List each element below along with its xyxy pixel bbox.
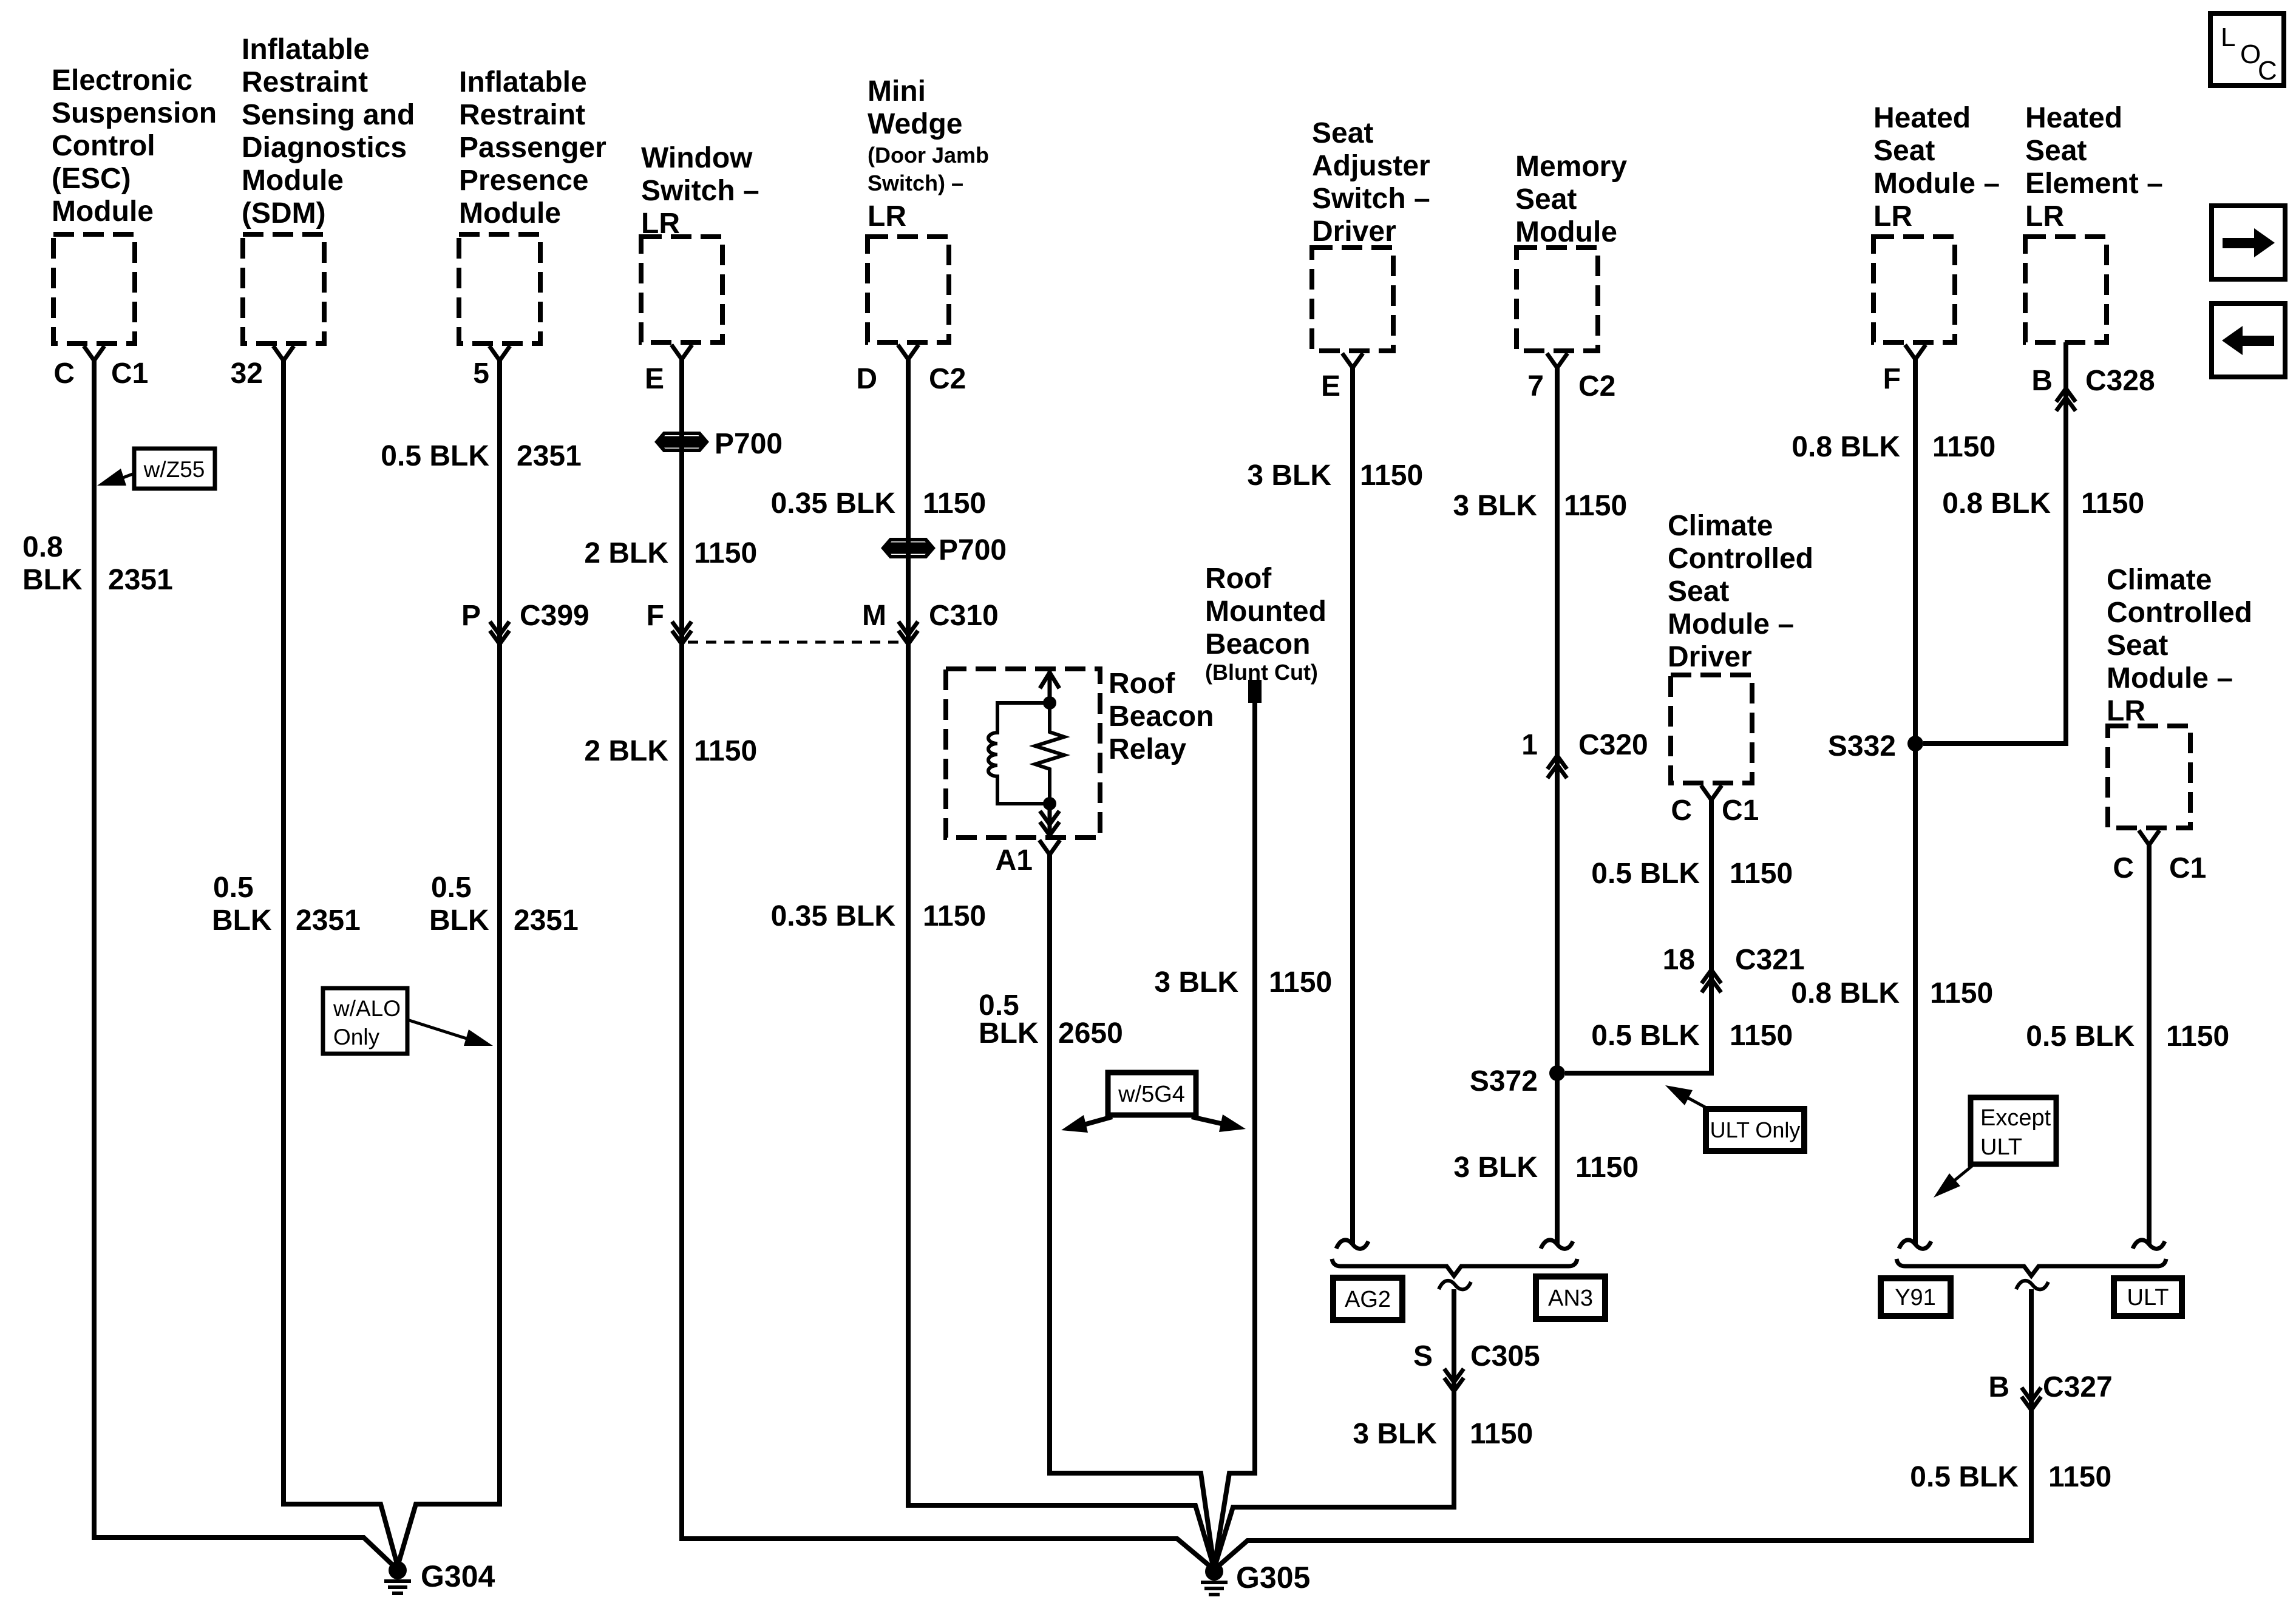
connector fork under relay pin A1 [1039, 840, 1060, 855]
in-line connector P700 symbol (mini wedge) [883, 540, 933, 557]
svg-text:1150: 1150 [2048, 1461, 2111, 1493]
svg-text:S372: S372 [1470, 1065, 1538, 1097]
callout double arrow w/5G4 [1079, 1117, 1226, 1126]
svg-text:F: F [1883, 363, 1901, 395]
module SDM dashed box [243, 234, 324, 344]
svg-text:1150: 1150 [1564, 490, 1627, 522]
svg-text:E: E [645, 363, 664, 395]
svg-text:Inflatable: Inflatable [459, 66, 587, 98]
svg-text:Only: Only [333, 1025, 380, 1049]
callout box w/Z55 [134, 449, 215, 489]
svg-text:C2: C2 [1578, 370, 1615, 402]
svg-text:0.5 BLK: 0.5 BLK [381, 440, 489, 472]
svg-text:0.8 BLK: 0.8 BLK [1942, 487, 2051, 520]
callout arrow w/Z55 [117, 473, 134, 480]
svg-text:Mini: Mini [868, 75, 926, 107]
svg-text:7: 7 [1527, 370, 1544, 402]
svg-text:32: 32 [231, 358, 263, 390]
module Mini Wedge dashed box [868, 237, 949, 342]
svg-text:1150: 1150 [923, 900, 986, 932]
svg-text:Control: Control [52, 130, 155, 162]
svg-text:M: M [862, 600, 886, 632]
net tag box AN3 [1536, 1276, 1605, 1319]
svg-text:C: C [1671, 795, 1692, 827]
svg-text:1150: 1150 [1269, 966, 1332, 998]
callout box w/ALO Only [323, 988, 407, 1054]
wire seat adjuster to splice bracket [1350, 368, 1355, 1244]
svg-text:Roof: Roof [1109, 668, 1175, 700]
svg-text:C327: C327 [2043, 1371, 2113, 1403]
svg-text:Module –: Module – [2107, 662, 2233, 694]
net tag box Y91 [1881, 1278, 1951, 1316]
svg-text:Suspension: Suspension [52, 97, 217, 129]
svg-text:Y91: Y91 [1895, 1285, 1936, 1310]
ground G305 [1205, 1562, 1223, 1581]
svg-text:w/Z55: w/Z55 [143, 457, 205, 482]
svg-text:0.5 BLK: 0.5 BLK [1591, 858, 1700, 890]
LOC reference box [2210, 13, 2284, 86]
svg-text:Module –: Module – [1668, 608, 1794, 640]
svg-text:Module: Module [1515, 216, 1617, 248]
svg-text:AN3: AN3 [1548, 1286, 1593, 1311]
in-line connector P700 symbol [657, 433, 707, 450]
brace pigtail squiggle [1439, 1281, 1471, 1289]
svg-text:0.5 BLK: 0.5 BLK [2026, 1020, 2135, 1053]
svg-text:2650: 2650 [1058, 1017, 1123, 1049]
svg-text:3 BLK: 3 BLK [1453, 1151, 1538, 1184]
svg-text:BLK: BLK [429, 904, 489, 937]
relay resistor (contact) branch [1035, 703, 1064, 804]
svg-text:Adjuster: Adjuster [1312, 150, 1430, 182]
connector fork under Heated Seat Module [1905, 345, 1926, 359]
svg-text:Heated: Heated [2025, 102, 2122, 134]
net tag box AG2 [1333, 1278, 1402, 1320]
svg-text:1150: 1150 [1730, 1020, 1793, 1052]
relay pin arrow up [1040, 671, 1059, 703]
svg-text:LR: LR [2025, 200, 2064, 232]
svg-text:Module –: Module – [1873, 168, 2000, 200]
wire hook end (heated module) [1899, 1240, 1931, 1249]
svg-text:0.5: 0.5 [431, 872, 472, 904]
connector fork under Window Switch [671, 345, 692, 359]
svg-text:F: F [647, 600, 664, 632]
svg-text:Restraint: Restraint [459, 99, 585, 131]
junction chevron on window switch wire [672, 622, 691, 644]
wire memory seat to splice bracket [1555, 368, 1560, 1244]
wire climate LR to bracket [2147, 845, 2152, 1244]
svg-text:Diagnostics: Diagnostics [242, 132, 407, 164]
wire from bracket to C327 and G305 [1214, 1289, 2031, 1570]
svg-text:3 BLK: 3 BLK [1154, 966, 1238, 998]
svg-text:C321: C321 [1735, 944, 1805, 976]
svg-text:Window: Window [641, 142, 753, 174]
svg-text:(ESC): (ESC) [52, 163, 131, 195]
svg-text:0.5 BLK: 0.5 BLK [1910, 1461, 2019, 1493]
dashed jumper wire between F and M [688, 641, 908, 644]
callout arrow Except ULT [1951, 1164, 1974, 1184]
wire Window Switch upper segment [682, 359, 1214, 1570]
connector fork under SDM [273, 346, 294, 361]
connector fork under Seat Adjuster [1342, 353, 1363, 368]
svg-text:P: P [461, 600, 481, 632]
splice bracket brace (AG2/AN3) [1332, 1259, 1577, 1276]
relay coil branch [988, 703, 1050, 804]
svg-text:1150: 1150 [1932, 431, 1995, 463]
svg-text:Seat: Seat [1312, 117, 1373, 149]
svg-text:Sensing and: Sensing and [242, 99, 415, 131]
svg-text:G304: G304 [421, 1559, 495, 1593]
svg-text:0.8 BLK: 0.8 BLK [1791, 977, 1900, 1009]
wire relay A1 ground: down, right, into G305 [1050, 855, 1214, 1567]
svg-text:3 BLK: 3 BLK [1453, 490, 1537, 522]
svg-text:Element –: Element – [2025, 168, 2163, 200]
wire ESC ground: down, right, into G304 [94, 361, 398, 1570]
svg-text:1150: 1150 [1730, 858, 1793, 890]
svg-text:0.8: 0.8 [22, 531, 63, 563]
module Climate Controlled Seat Driver dashed box [1671, 675, 1752, 783]
svg-text:Restraint: Restraint [242, 66, 368, 98]
svg-text:Switch –: Switch – [1312, 183, 1430, 215]
module Memory Seat dashed box [1517, 248, 1598, 351]
svg-text:1150: 1150 [2166, 1020, 2229, 1053]
svg-text:P700: P700 [939, 534, 1007, 566]
relay pin double-arrow down [1040, 804, 1059, 836]
svg-text:Switch –: Switch – [641, 175, 759, 207]
svg-text:LR: LR [2107, 695, 2145, 727]
svg-text:1: 1 [1521, 729, 1538, 761]
blunt cut stub bar [1248, 680, 1262, 703]
callout arrow ULT Only [1687, 1097, 1710, 1110]
svg-text:Controlled: Controlled [1668, 543, 1813, 575]
svg-text:Climate: Climate [2107, 564, 2212, 596]
svg-text:G305: G305 [1236, 1561, 1310, 1595]
module Heated Seat Module dashed box [1873, 237, 1955, 342]
module Climate Controlled Seat LR dashed box [2108, 726, 2190, 828]
svg-text:C399: C399 [520, 600, 589, 632]
svg-text:1150: 1150 [2081, 487, 2144, 520]
svg-text:2351: 2351 [514, 904, 579, 937]
svg-text:Beacon: Beacon [1205, 628, 1310, 660]
svg-text:w/ALO: w/ALO [333, 996, 401, 1021]
svg-text:Controlled: Controlled [2107, 597, 2252, 629]
svg-text:0.35 BLK: 0.35 BLK [771, 487, 896, 520]
callout box ULT Only [1706, 1109, 1804, 1151]
svg-text:L: L [2221, 22, 2235, 52]
in-line connector C328 chevron [2056, 388, 2076, 411]
svg-text:(Door Jamb: (Door Jamb [868, 143, 989, 168]
svg-text:Seat: Seat [1668, 575, 1729, 608]
wire climate driver to splice S372 [1565, 800, 1711, 1073]
svg-text:C1: C1 [2169, 852, 2206, 884]
wire hook end (climate LR) [2133, 1240, 2165, 1249]
callout arrow w/ALO Only [407, 1020, 470, 1040]
connector fork under Passenger Presence module [489, 346, 510, 361]
svg-text:Inflatable: Inflatable [242, 33, 370, 66]
svg-text:Seat: Seat [1873, 135, 1935, 167]
svg-text:1150: 1150 [1575, 1151, 1639, 1184]
svg-text:2 BLK: 2 BLK [584, 735, 668, 767]
svg-text:B: B [2031, 365, 2053, 397]
svg-text:(SDM): (SDM) [242, 197, 326, 229]
wire hook end (seat adjuster) [1336, 1240, 1368, 1249]
svg-text:Presence: Presence [459, 164, 589, 197]
svg-text:C: C [2113, 852, 2134, 884]
svg-text:C320: C320 [1578, 729, 1648, 761]
wire heated seat module to bracket [1913, 359, 1918, 1244]
module Window Switch dashed box [641, 237, 722, 342]
svg-text:D: D [856, 363, 877, 395]
svg-text:Wedge: Wedge [868, 108, 962, 140]
connector fork under Climate Driver [1701, 785, 1722, 800]
svg-text:3 BLK: 3 BLK [1247, 459, 1331, 492]
svg-text:A1: A1 [996, 844, 1033, 876]
svg-text:Module: Module [459, 197, 561, 229]
svg-text:LR: LR [868, 200, 906, 232]
svg-text:Mounted: Mounted [1205, 595, 1326, 628]
callout box w/5G4 [1108, 1073, 1196, 1115]
svg-text:ULT Only: ULT Only [1710, 1117, 1801, 1142]
svg-text:Seat: Seat [1515, 183, 1577, 215]
svg-text:P700: P700 [715, 428, 783, 460]
svg-text:S: S [1413, 1340, 1433, 1372]
svg-text:1150: 1150 [694, 735, 757, 767]
svg-text:Seat: Seat [2107, 629, 2168, 662]
svg-text:0.5 BLK: 0.5 BLK [1591, 1020, 1700, 1052]
svg-text:LR: LR [1873, 200, 1912, 232]
module Seat Adjuster dashed box [1312, 248, 1393, 351]
wire from bracket to C305 and G305 [1214, 1289, 1454, 1568]
net tag box ULT [2114, 1278, 2182, 1316]
svg-text:ULT: ULT [2127, 1285, 2169, 1310]
ground G304 [389, 1561, 407, 1579]
module Passenger Presence dashed box [459, 234, 540, 344]
svg-text:Driver: Driver [1668, 641, 1752, 673]
svg-text:5: 5 [473, 358, 489, 390]
svg-text:Passenger: Passenger [459, 132, 606, 164]
in-line connector C305 chevron [1444, 1369, 1464, 1391]
in-line connector C327 chevron [2022, 1388, 2041, 1410]
svg-text:C: C [53, 358, 75, 390]
wire Passenger Presence ground: down, left, into G304 [398, 361, 500, 1566]
svg-text:Beacon: Beacon [1109, 700, 1214, 733]
svg-text:C328: C328 [2085, 365, 2155, 397]
svg-text:1150: 1150 [923, 487, 986, 520]
svg-text:0.5: 0.5 [213, 872, 254, 904]
svg-text:B: B [1988, 1371, 2009, 1403]
in-line connector C320 chevron [1547, 756, 1567, 778]
callout box Except ULT [1971, 1097, 2056, 1164]
splice S332 dot [1907, 736, 1923, 751]
svg-text:1150: 1150 [1930, 977, 1993, 1009]
connector fork under ESC [84, 346, 104, 361]
relay dashed box [946, 669, 1100, 838]
nav box arrow right [2212, 206, 2285, 279]
svg-text:BLK: BLK [22, 564, 83, 596]
wire SDM ground: down, right, into G304 [284, 361, 398, 1566]
svg-text:ULT: ULT [1980, 1134, 2022, 1160]
connector fork under Mini Wedge [898, 345, 919, 359]
svg-text:1150: 1150 [1470, 1418, 1533, 1450]
svg-text:Except: Except [1980, 1105, 2051, 1131]
wire hook end (memory seat) [1541, 1240, 1573, 1249]
relay node bottom junction dot [1043, 797, 1056, 810]
svg-text:18: 18 [1663, 944, 1695, 976]
svg-text:C310: C310 [929, 600, 999, 632]
svg-text:S332: S332 [1828, 730, 1896, 762]
svg-text:1150: 1150 [694, 537, 757, 569]
svg-text:Relay: Relay [1109, 733, 1186, 765]
splice bracket brace (Y91/ULT) [1897, 1259, 2166, 1276]
svg-text:BLK: BLK [212, 904, 272, 937]
svg-text:2351: 2351 [517, 440, 582, 472]
svg-text:C: C [2258, 56, 2277, 86]
svg-text:Seat: Seat [2025, 135, 2087, 167]
in-line connector C321 chevron [1702, 970, 1721, 992]
brace pigtail squiggle (Y91/ULT) [2016, 1281, 2048, 1289]
in-line connector C399 chevron [490, 622, 509, 644]
svg-text:C1: C1 [1722, 795, 1759, 827]
svg-text:1150: 1150 [1360, 459, 1423, 492]
relay node top junction dot [1043, 696, 1056, 710]
svg-text:3 BLK: 3 BLK [1353, 1418, 1437, 1450]
svg-text:2351: 2351 [108, 564, 173, 596]
svg-text:Memory: Memory [1515, 151, 1627, 183]
svg-text:w/5G4: w/5G4 [1118, 1082, 1185, 1107]
svg-text:Heated: Heated [1873, 102, 1971, 134]
svg-text:0.35 BLK: 0.35 BLK [771, 900, 896, 932]
svg-text:BLK: BLK [979, 1017, 1039, 1049]
module Heated Seat Element dashed box [2025, 237, 2107, 342]
svg-text:2 BLK: 2 BLK [584, 537, 668, 569]
nav box arrow left [2212, 303, 2285, 377]
svg-text:Module: Module [52, 195, 154, 228]
svg-text:Electronic: Electronic [52, 64, 192, 97]
connector fork under Climate LR [2139, 830, 2159, 845]
junction chevron on mini wedge wire [898, 622, 918, 644]
svg-text:E: E [1321, 370, 1340, 402]
svg-text:Climate: Climate [1668, 510, 1773, 542]
svg-text:0.8 BLK: 0.8 BLK [1792, 431, 1900, 463]
wire heated seat element to splice S332 [1923, 342, 2066, 744]
svg-text:C2: C2 [929, 363, 966, 395]
connector fork under Memory Seat [1547, 353, 1567, 368]
svg-text:C305: C305 [1470, 1340, 1540, 1372]
svg-text:C1: C1 [111, 358, 148, 390]
splice S372 dot [1549, 1065, 1565, 1081]
module ESC dashed box [53, 234, 135, 344]
svg-text:2351: 2351 [296, 904, 361, 937]
wire roof beacon ground: down into G305 [1214, 702, 1255, 1567]
wire Mini Wedge ground: down, right, into G305 [908, 359, 1214, 1568]
svg-text:Module: Module [242, 164, 344, 197]
svg-text:Driver: Driver [1312, 215, 1396, 248]
svg-text:Switch) –: Switch) – [868, 171, 963, 195]
svg-text:AG2: AG2 [1345, 1287, 1391, 1312]
svg-text:Roof: Roof [1205, 563, 1272, 595]
